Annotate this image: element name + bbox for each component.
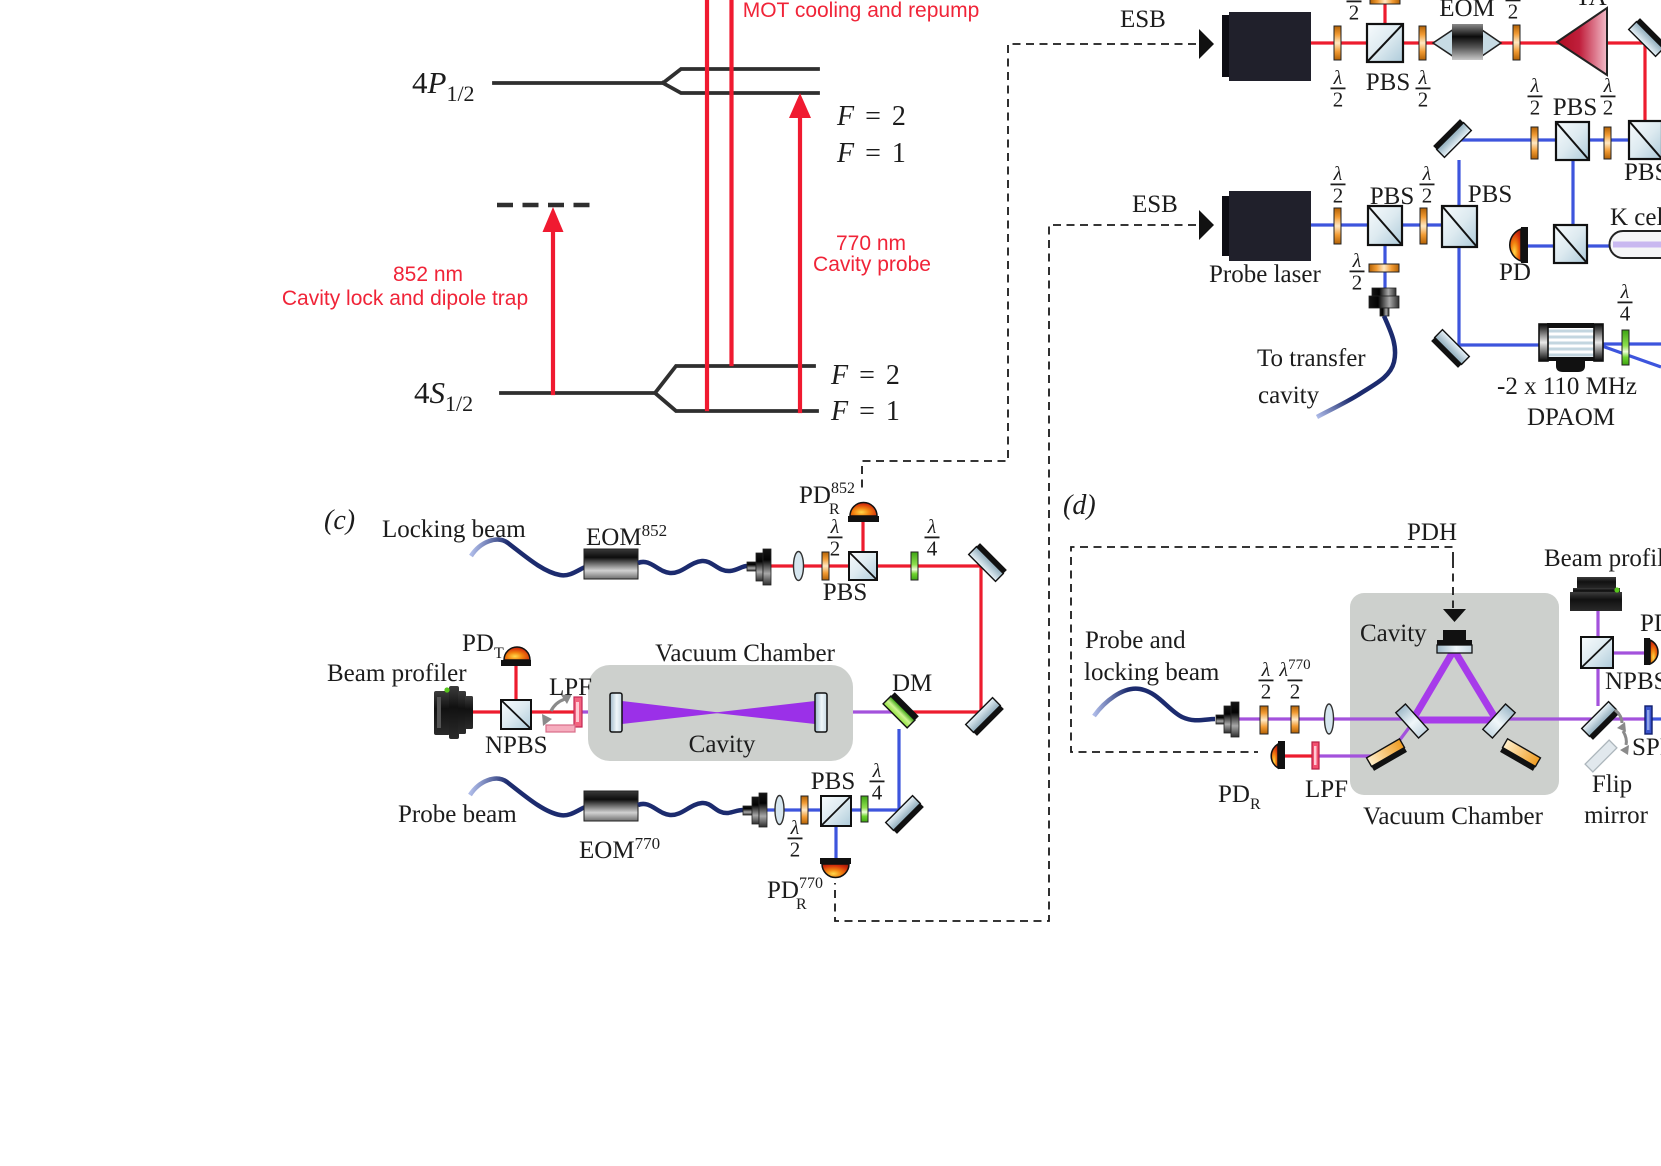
svg-text:EOM: EOM [1439,0,1495,22]
svg-text:MOT cooling and repump: MOT cooling and repump [743,0,980,22]
svg-text:Beam profiler: Beam profiler [327,660,467,687]
svg-text:PBS: PBS [823,579,867,606]
svg-text:PBS: PBS [1624,159,1661,186]
svg-text:K cell: K cell [1610,204,1661,231]
svg-text:DM: DM [892,670,932,697]
svg-text:Cavity: Cavity [1360,620,1427,647]
svg-text:Probe laser: Probe laser [1209,261,1321,288]
svg-text:Beam profiler: Beam profiler [1544,545,1661,572]
svg-text:770 nm: 770 nm [836,232,906,255]
svg-text:ESB: ESB [1132,191,1178,218]
svg-text:852 nm: 852 nm [393,263,463,286]
svg-text:NPBS: NPBS [485,732,548,759]
svg-text:(d): (d) [1063,490,1096,521]
svg-text:Vacuum Chamber: Vacuum Chamber [655,640,835,667]
svg-text:PBS: PBS [1366,69,1410,96]
svg-text:TA: TA [1575,0,1606,11]
svg-text:NPBS: NPBS [1605,668,1661,695]
svg-text:DPAOM: DPAOM [1527,404,1615,431]
svg-text:PD: PD [1640,610,1661,637]
svg-text:SPF: SPF [1632,734,1661,761]
svg-text:Probe beam: Probe beam [398,801,517,828]
svg-text:ESB: ESB [1120,6,1166,33]
svg-text:To transfer: To transfer [1257,345,1366,372]
svg-text:(c): (c) [324,505,355,536]
svg-text:locking beam: locking beam [1084,659,1220,686]
svg-text:F = 1: F = 1 [830,396,902,427]
svg-text:LPF: LPF [549,674,592,701]
svg-text:mirror: mirror [1584,802,1649,829]
svg-text:F = 2: F = 2 [830,360,902,391]
svg-text:Cavity lock and dipole trap: Cavity lock and dipole trap [282,287,528,310]
svg-text:Cavity probe: Cavity probe [813,253,931,276]
svg-text:PBS: PBS [1468,181,1512,208]
svg-text:Locking beam: Locking beam [382,516,526,543]
svg-text:F = 1: F = 1 [836,138,908,169]
svg-text:PD: PD [1499,259,1531,286]
svg-text:Probe and: Probe and [1085,627,1186,654]
svg-text:PBS: PBS [1553,94,1597,121]
svg-text:Flip: Flip [1592,771,1632,798]
svg-text:F = 2: F = 2 [836,101,908,132]
svg-text:cavity: cavity [1258,382,1320,409]
svg-text:PDH: PDH [1407,519,1457,546]
svg-text:PBS: PBS [1370,183,1414,210]
svg-text:2: 2 [1290,680,1301,704]
svg-text:-2 x 110 MHz: -2 x 110 MHz [1497,373,1637,400]
svg-text:Vacuum Chamber: Vacuum Chamber [1363,803,1543,830]
svg-text:LPF: LPF [1305,776,1348,803]
svg-text:Cavity: Cavity [689,731,756,758]
svg-text:PBS: PBS [811,768,855,795]
